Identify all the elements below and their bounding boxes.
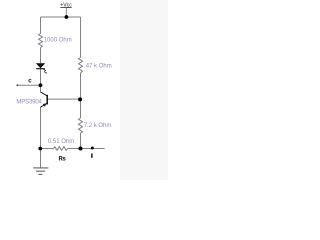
- svg-text:Rs: Rs: [59, 157, 67, 163]
- svg-text:MPS3904: MPS3904: [16, 100, 42, 106]
- svg-text:7.2 k Ohm: 7.2 k Ohm: [84, 123, 112, 129]
- svg-text:0.51 Ohm: 0.51 Ohm: [48, 139, 74, 145]
- svg-text:47 k Ohm: 47 k Ohm: [86, 63, 112, 69]
- svg-text:1000 Ohm: 1000 Ohm: [44, 38, 72, 44]
